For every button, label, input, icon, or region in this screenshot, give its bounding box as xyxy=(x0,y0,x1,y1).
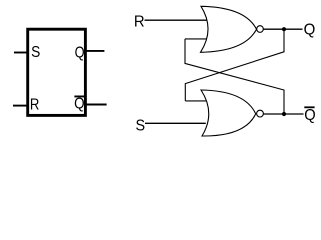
junction node Q xyxy=(282,27,286,31)
overbar of block Qbar xyxy=(74,96,84,98)
NOR gate G2 (bottom) body xyxy=(201,90,256,136)
pin R stub xyxy=(13,105,27,107)
wire feedback Qbar to G1 input xyxy=(185,39,284,114)
svg-text:R: R xyxy=(134,13,145,31)
svg-text:Q: Q xyxy=(304,21,316,39)
svg-text:Q: Q xyxy=(74,96,84,113)
svg-text:Q: Q xyxy=(75,44,85,62)
SR latch block symbol U1 xyxy=(28,29,86,115)
NOR gate G1 output bubble xyxy=(257,26,264,33)
wire G2 upper input xyxy=(185,100,206,102)
svg-text:S: S xyxy=(136,117,146,135)
svg-text:Q: Q xyxy=(304,107,315,125)
wire R input xyxy=(145,19,207,21)
svg-text:R: R xyxy=(30,96,39,113)
wire G1 output to Q xyxy=(263,28,302,30)
wire feedback Q to G2 input xyxy=(185,29,284,101)
wire G1 lower input xyxy=(185,38,206,40)
pin Qbar stub xyxy=(86,104,107,106)
NOR gate G2 output bubble xyxy=(257,110,264,117)
wire S input xyxy=(145,122,206,124)
junction node Qbar xyxy=(282,112,286,116)
NOR gate G1 (top) body xyxy=(201,6,257,52)
svg-text:S: S xyxy=(31,43,40,61)
pin Q stub xyxy=(86,50,104,52)
overbar of net Qbar xyxy=(304,106,314,108)
wire G2 output to Qbar xyxy=(263,113,303,115)
pin S stub xyxy=(14,52,27,54)
